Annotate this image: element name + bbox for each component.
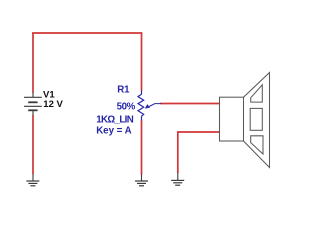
speaker slot bottom [251, 136, 263, 154]
wire: left vertical from battery top to top rail [32, 33, 34, 93]
wire: top horizontal rail [32, 32, 142, 34]
potentiometer R1 [138, 90, 161, 120]
wire: battery bottom to ground 1 [32, 115, 34, 174]
ground 3 (speaker) [171, 173, 184, 186]
speaker slot middle [250, 108, 262, 130]
wiper arm [148, 104, 161, 107]
battery V1 [24, 92, 42, 115]
wire: speaker pin 2 to ground 3 [178, 132, 220, 173]
ground 2 (R1) [135, 174, 148, 186]
svg-text:50%: 50% [117, 102, 136, 113]
svg-text:12 V: 12 V [43, 99, 63, 110]
wire: R1 wiper to speaker pin 1 [160, 103, 219, 105]
svg-text:1KΩ_LIN: 1KΩ_LIN [96, 114, 134, 125]
svg-text:R1: R1 [117, 84, 130, 95]
wire: right vertical from top rail down to R1 top [141, 33, 143, 91]
speaker LS1 [220, 73, 270, 168]
speaker slot top [251, 85, 263, 102]
ground 1 (battery) [26, 174, 39, 186]
wiper arrowhead [145, 104, 150, 109]
speaker horn outline [244, 73, 270, 168]
wire: R1 bottom to ground 2 [141, 120, 143, 175]
svg-text:Key = A: Key = A [96, 126, 131, 137]
speaker body rectangle [220, 97, 244, 141]
